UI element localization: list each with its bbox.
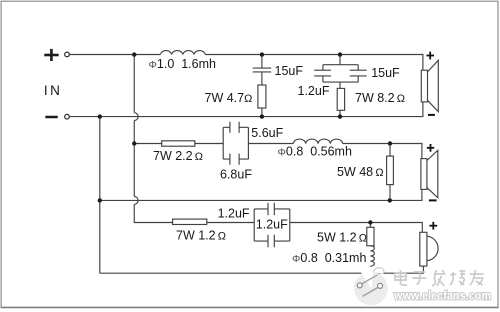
svg-text:15uF: 15uF: [275, 64, 304, 78]
wire cap branch 1: [261, 55, 263, 86]
wire: [195, 143, 223, 145]
wire shunt: [389, 144, 391, 157]
resistor 7W 1.2: [173, 219, 207, 224]
svg-text:6.8uF: 6.8uF: [220, 168, 252, 182]
resistor 5W 48: [387, 156, 394, 185]
wire mid section feed: [134, 143, 161, 145]
wire: [339, 110, 341, 116]
svg-text:Φ0.8 0.31mh: Φ0.8 0.31mh: [292, 251, 366, 265]
svg-text:7W 8.2 Ω: 7W 8.2 Ω: [355, 91, 405, 105]
svg-text:5.6uF: 5.6uF: [251, 126, 283, 140]
svg-text:7W 4.7Ω: 7W 4.7Ω: [205, 91, 253, 105]
wire: [133, 121, 135, 197]
wire: [207, 222, 254, 224]
wire top rail to tweeter: [205, 55, 423, 71]
svg-text:1.2uF: 1.2uF: [218, 207, 250, 221]
inductor L 0.56mh: [293, 139, 342, 143]
input terminal minus: [45, 116, 57, 119]
inductor L 0.31mh vertical: [370, 246, 374, 266]
resistor 7W 4.7: [258, 85, 266, 108]
resistor 7W 2.2: [162, 141, 195, 146]
capacitor 1.2uF leads: [357, 65, 359, 82]
junction plus rail / cap branch 1: [260, 52, 264, 56]
wire: [369, 266, 371, 273]
svg-text:Φ1.0 1.6mh: Φ1.0 1.6mh: [149, 57, 217, 71]
svg-text:7W 1.2 Ω: 7W 1.2 Ω: [176, 229, 226, 243]
wire minus input / top section bottom rail: [69, 102, 423, 117]
svg-text:5W 1.2 Ω: 5W 1.2 Ω: [317, 231, 367, 245]
wire to mid speaker: [343, 144, 422, 159]
junction mid rail / left return bus: [98, 198, 102, 202]
value labels: [149, 57, 406, 265]
wire parallel cap top bus: [323, 64, 358, 66]
capacitor 15uF plates: [314, 70, 331, 76]
wire bottom rail: [100, 266, 424, 273]
wire: [261, 108, 263, 117]
midrange minus mark: [429, 199, 437, 201]
resistor 7W 8.2: [337, 88, 344, 110]
wire feed to bottom section: [134, 204, 172, 222]
junction minus rail / left return bus: [98, 114, 102, 118]
capacitor 15uF leads: [322, 65, 324, 82]
junction plus rail / cap branch 2: [338, 52, 342, 56]
tweeter plus mark: [427, 52, 435, 60]
input terminal circle plus: [65, 52, 70, 57]
svg-text:www.elecfans.com: www.elecfans.com: [393, 289, 491, 303]
junction feed bus / mid section: [132, 141, 136, 145]
wire: [389, 185, 391, 201]
capacitor 1.2uF top: [254, 203, 290, 215]
junction plus rail / feed bus: [132, 52, 136, 56]
input terminal circle minus: [65, 114, 70, 119]
svg-text:Φ0.8 0.56mh: Φ0.8 0.56mh: [278, 145, 352, 159]
wire + input rail: [70, 54, 161, 56]
capacitor 5.6uF: [223, 122, 248, 133]
capacitor block 5.6uF/6.8uF frame: [223, 127, 248, 159]
wire hop over mid rail: [134, 197, 138, 205]
wire parallel cap bottom bus: [323, 82, 358, 88]
wire mid section bottom rail: [100, 189, 422, 200]
capacitor block 1.2uF frame: [254, 209, 290, 241]
capacitor 6.8uF: [223, 154, 248, 165]
watermark logo: [354, 266, 388, 305]
wire: [248, 143, 293, 145]
capacitor 1.2uF plates: [350, 70, 367, 76]
junction mid wire / shunt resistor: [388, 141, 392, 145]
svg-text:5W 48 Ω: 5W 48 Ω: [337, 165, 384, 179]
wire hop over minus rail: [134, 113, 138, 121]
junction minus rail / cap branch 1: [260, 114, 264, 118]
svg-text:7W 2.2 Ω: 7W 2.2 Ω: [153, 149, 203, 163]
resistor 5W 1.2: [367, 227, 374, 246]
svg-text:IN: IN: [44, 83, 63, 98]
inductor L 1.6mh: [160, 51, 205, 55]
midrange plus mark: [427, 144, 434, 152]
tweeter minus mark: [428, 114, 435, 116]
junction bottom wire / shunt branch: [368, 220, 372, 224]
woofer plus mark: [429, 222, 437, 230]
wire left return bus: [99, 117, 101, 274]
svg-text:15uF: 15uF: [371, 66, 400, 80]
svg-text:1.2uF: 1.2uF: [256, 218, 288, 232]
svg-text:1.2uF: 1.2uF: [298, 84, 330, 98]
junction mid rail / shunt resistor: [388, 198, 392, 202]
input terminal plus: [44, 49, 58, 61]
midrange speaker: [421, 159, 427, 190]
capacitor 1.2uF bottom: [254, 235, 290, 248]
capacitor 15uF: [253, 68, 272, 72]
tweeter speaker: [421, 70, 427, 102]
wire to woofer: [290, 223, 423, 233]
wire shunt: [369, 223, 371, 228]
woofer speaker: [420, 232, 427, 266]
wire cap branch 2 stub: [339, 55, 341, 65]
junction minus rail / cap branch 2: [338, 114, 342, 118]
wire vertical feed bus: [133, 55, 135, 113]
watermark chinese glyphs: [395, 270, 484, 286]
